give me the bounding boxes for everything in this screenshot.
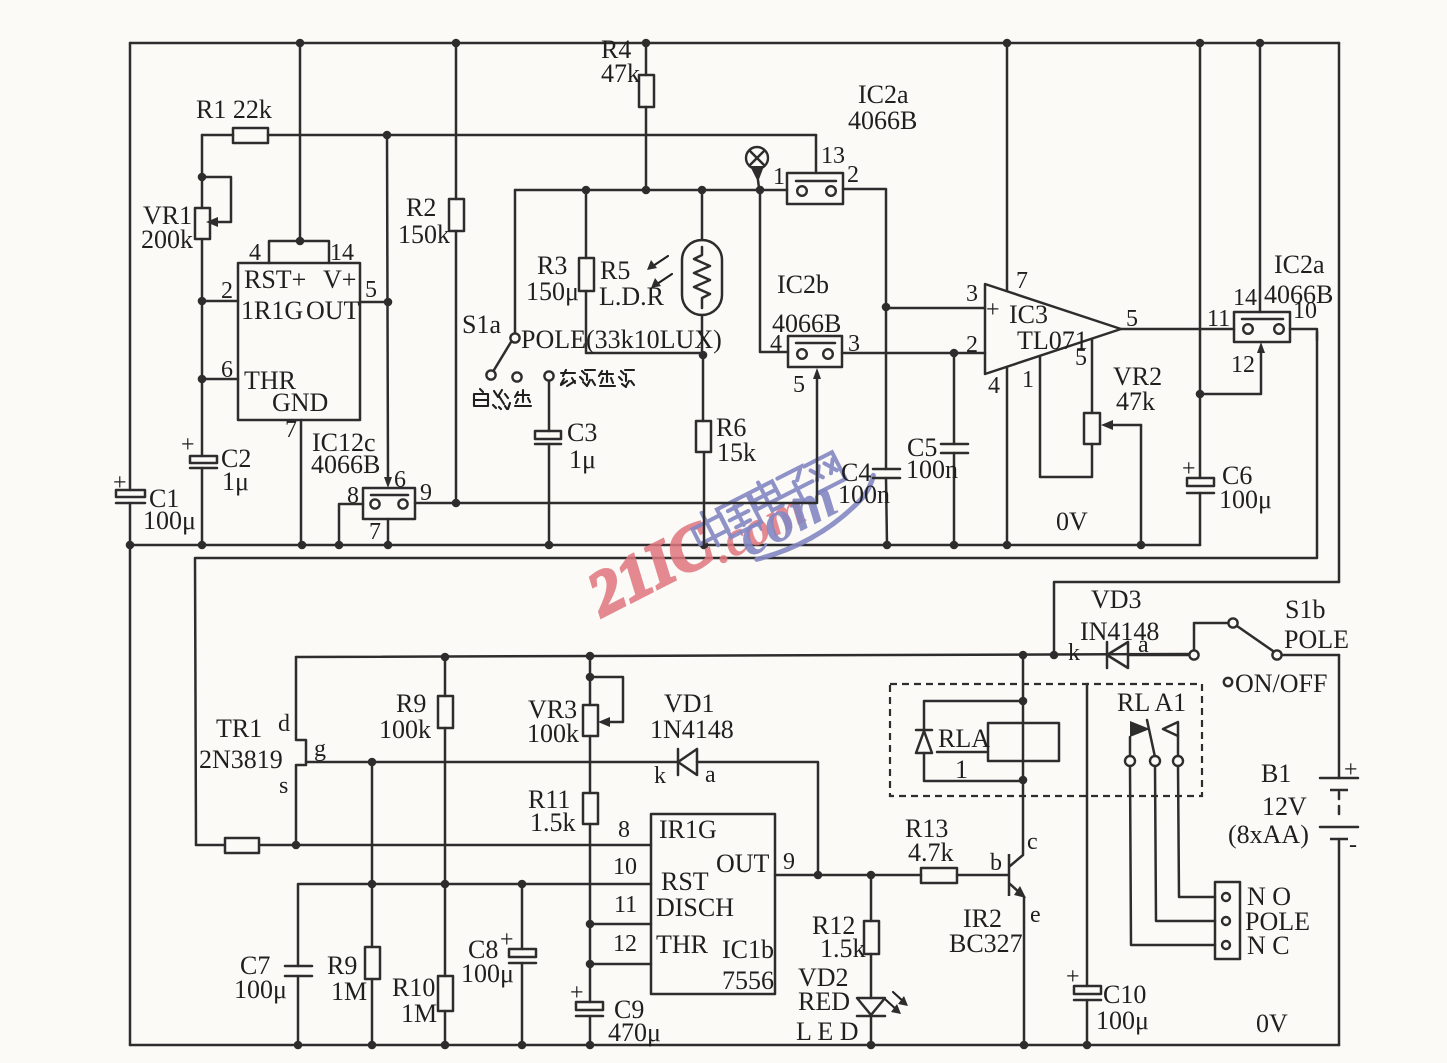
svg-text:V+: V+ xyxy=(323,265,356,294)
wire opamp pin4 ground xyxy=(1006,367,1009,545)
svg-text:GND: GND xyxy=(272,388,328,417)
svg-text:13: 13 xyxy=(821,143,845,169)
svg-text:S1a: S1a xyxy=(462,310,501,339)
svg-text:IC3: IC3 xyxy=(1009,300,1048,329)
diode RLA freewheel xyxy=(916,701,1023,781)
light arrows onto LDR xyxy=(647,256,672,288)
svg-text:c: c xyxy=(1027,829,1038,855)
wire IC2b pin3 to opamp in- xyxy=(842,352,985,355)
capacitor C1 xyxy=(116,490,145,503)
svg-text:R9: R9 xyxy=(396,689,426,718)
wire control line x388 to IC12c xyxy=(384,135,392,488)
potentiometer VR3 xyxy=(583,655,623,736)
svg-text:OUT: OUT xyxy=(716,849,770,878)
wire S1a pole drop xyxy=(514,190,517,333)
node VR3 wiper junction xyxy=(586,673,595,682)
node y190 junction R3 xyxy=(582,186,591,195)
svg-text:RST: RST xyxy=(661,867,709,896)
svg-text:(8xAA): (8xAA) xyxy=(1228,820,1309,849)
svg-text:RED: RED xyxy=(798,987,850,1016)
svg-text:4066B: 4066B xyxy=(772,309,841,338)
wire contact NC leg xyxy=(1130,766,1215,945)
svg-text:R1 22k: R1 22k xyxy=(196,95,272,124)
svg-text:7: 7 xyxy=(369,519,381,545)
svg-text:150k: 150k xyxy=(398,220,450,249)
capacitor C6 xyxy=(1187,43,1214,545)
label jiaoliu guangyuan AC light source xyxy=(561,370,634,387)
node bottom rail junction x445 xyxy=(441,1041,450,1050)
capacitor C5 xyxy=(941,353,968,545)
svg-text:+: + xyxy=(500,927,514,953)
photoresistor R5 LDR xyxy=(682,190,722,353)
potentiometer VR1 xyxy=(195,177,231,239)
resistor unlabeled source xyxy=(225,838,259,853)
wire IC2a pin2 down x886 xyxy=(843,189,886,307)
wire IC1a pin5 OUT xyxy=(360,301,388,304)
svg-text:470μ: 470μ xyxy=(608,1018,661,1047)
svg-text:3: 3 xyxy=(966,281,978,307)
svg-text:R9: R9 xyxy=(327,951,357,980)
node coil upper junction xyxy=(1019,697,1028,706)
node VD3 branch junction xyxy=(1050,651,1059,660)
node VR1 top junction xyxy=(198,173,207,182)
wire IC1a V+ feed x300 xyxy=(299,43,302,241)
node 0V rail junction x887 xyxy=(883,541,892,550)
svg-text:1.5k: 1.5k xyxy=(530,808,576,837)
svg-text:+: + xyxy=(181,432,195,458)
svg-text:BC327: BC327 xyxy=(949,929,1023,958)
node bottom rail junction x372 xyxy=(368,1041,377,1050)
wire VR1 branch vertical x202 xyxy=(201,135,204,545)
capacitor C8 xyxy=(509,884,536,1045)
svg-text:8: 8 xyxy=(618,817,630,843)
capacitor C10 xyxy=(1074,684,1101,1045)
svg-text:1μ: 1μ xyxy=(222,467,249,496)
svg-text:100μ: 100μ xyxy=(461,959,514,988)
resistor R13 xyxy=(921,868,1008,883)
transistor IR2 BC327 xyxy=(1009,854,1026,1045)
svg-text:e: e xyxy=(1030,902,1041,928)
resistor R12 xyxy=(864,875,879,998)
svg-text:RST+: RST+ xyxy=(244,265,306,294)
svg-text:IC2a: IC2a xyxy=(858,80,909,109)
node source junction x296 xyxy=(292,841,301,850)
svg-text:12: 12 xyxy=(1231,352,1255,378)
svg-text:100k: 100k xyxy=(379,715,431,744)
wire left border xyxy=(129,43,132,490)
node pin6 junction xyxy=(198,375,207,384)
resistor R3 xyxy=(579,190,703,353)
wire RST line y884 xyxy=(298,884,651,966)
svg-text:DISCH: DISCH xyxy=(656,893,734,922)
diode VD1 1N4148 xyxy=(678,749,818,875)
node 0V rail junction x954 xyxy=(950,541,959,550)
node 0V rail junction x549 xyxy=(545,541,554,550)
svg-text:1: 1 xyxy=(955,755,968,784)
node 0V rail junction x130 xyxy=(126,541,135,550)
node 0V rail junction x1007 xyxy=(1003,541,1012,550)
node coil lower junction xyxy=(1019,776,1028,785)
wire lamp node line y190 xyxy=(515,189,787,192)
wire IC1a pin6 xyxy=(202,378,238,381)
node bottom rail junction x590 xyxy=(586,1041,595,1050)
svg-text:+: + xyxy=(570,980,584,1006)
wire opamp in+ xyxy=(886,307,985,310)
svg-text:100μ: 100μ xyxy=(1219,485,1272,514)
arrowhead IC2b pin5 xyxy=(813,368,821,379)
node VR3 top junction xyxy=(586,652,595,661)
capacitor C2 xyxy=(190,456,217,468)
svg-text:10: 10 xyxy=(1293,298,1317,324)
wire IC1b OUT pin9 xyxy=(775,874,921,877)
svg-text:2: 2 xyxy=(966,332,978,358)
wire IC1a pins 4-14 bracket xyxy=(269,241,329,263)
op-amp U IC1a timer box xyxy=(238,263,360,420)
svg-text:k: k xyxy=(654,763,666,789)
svg-text:2N3819: 2N3819 xyxy=(199,745,283,774)
wire bottom 0V rail xyxy=(130,1044,1339,1047)
transistor TR1 2N3819 xyxy=(296,657,306,845)
svg-text:14: 14 xyxy=(1233,285,1257,311)
wire IC2a right pin14 supply xyxy=(1259,43,1262,312)
node y190 junction lamp xyxy=(756,186,765,195)
svg-text:1R1G: 1R1G xyxy=(241,296,303,325)
svg-text:100n: 100n xyxy=(906,455,958,484)
svg-text:100k: 100k xyxy=(527,719,579,748)
resistor R11 xyxy=(583,736,598,924)
node bottom rail junction x522 xyxy=(518,1041,527,1050)
svg-text:100n: 100n xyxy=(838,480,890,509)
node pin2 junction xyxy=(198,297,207,306)
wire IC1a pin2 xyxy=(202,300,238,303)
node 0V rail junction x1141 xyxy=(1137,541,1146,550)
wire bottom section top line y656 xyxy=(296,654,1190,657)
wire opamp output to IC2a right xyxy=(1121,328,1234,331)
svg-text:R2: R2 xyxy=(406,193,436,222)
wire lamp node to IC2b pin4 xyxy=(760,190,788,352)
node RST junction x522 xyxy=(518,880,527,889)
wire right border upper xyxy=(1338,43,1341,582)
node top rail junction x300 xyxy=(296,39,305,48)
svg-text:a: a xyxy=(1138,632,1149,658)
svg-text:RL A1: RL A1 xyxy=(1117,688,1186,717)
node y190 junction LDR xyxy=(698,186,707,195)
svg-text:4066B: 4066B xyxy=(848,106,917,135)
node 0V rail junction x704 xyxy=(700,541,709,550)
node top rail junction x1200 xyxy=(1196,39,1205,48)
svg-text:IC1b: IC1b xyxy=(722,935,774,964)
svg-text:9: 9 xyxy=(783,849,795,875)
svg-text:+: + xyxy=(1066,964,1080,990)
watermark zhongguo dianziwang blue xyxy=(687,446,846,552)
capacitor C3 xyxy=(535,381,561,545)
svg-text:IC2b: IC2b xyxy=(777,270,829,299)
node 0V rail junction x202 xyxy=(198,541,207,550)
svg-text:TR1: TR1 xyxy=(216,714,262,743)
node LDR bottom junction xyxy=(699,351,708,360)
label RLA underline xyxy=(937,751,986,754)
node pin11 junction xyxy=(586,920,595,929)
svg-text:1: 1 xyxy=(1022,367,1034,393)
node OUT junction R12 xyxy=(867,871,876,880)
terminal block NO POLE NC xyxy=(1215,882,1240,959)
watermark com blue script xyxy=(725,443,887,569)
wire relay coil feed xyxy=(1022,655,1025,854)
resistor R4 xyxy=(639,43,654,190)
capacitor C9 xyxy=(576,924,603,1045)
wire IC1a pin7 GND xyxy=(300,420,303,545)
node RST junction x445 xyxy=(441,880,450,889)
node bottom rail junction x1087 xyxy=(1083,1041,1092,1050)
svg-text:1.5k: 1.5k xyxy=(820,934,866,963)
node top rail junction x1007 xyxy=(1003,39,1012,48)
svg-text:a: a xyxy=(705,762,716,788)
svg-text:12V: 12V xyxy=(1262,792,1307,821)
wire switched supply rail of bottom section xyxy=(195,332,1317,845)
diode VD3 IN4148 xyxy=(1107,642,1189,668)
node pin5 junction xyxy=(384,298,393,307)
svg-text:d: d xyxy=(278,711,290,737)
svg-text:R3: R3 xyxy=(537,251,567,280)
resistor R6 xyxy=(696,355,711,545)
svg-text:b: b xyxy=(990,850,1002,876)
svg-text:5: 5 xyxy=(793,372,805,398)
wire IC12c pin9 to IC2b pin5 xyxy=(415,374,817,503)
resistor R9 1M xyxy=(365,762,380,1045)
svg-text:4: 4 xyxy=(770,331,782,357)
svg-text:g: g xyxy=(314,736,326,762)
svg-text:+: + xyxy=(113,470,127,496)
wire IC12c pin7 to rail xyxy=(387,519,390,545)
svg-text:k: k xyxy=(1068,640,1080,666)
wire top +V rail xyxy=(130,42,1339,45)
svg-text:R5: R5 xyxy=(600,256,630,285)
wire 0V rail top section xyxy=(130,544,1200,547)
svg-text:R10: R10 xyxy=(392,973,435,1002)
svg-text:POLE: POLE xyxy=(1284,625,1349,654)
node C6 junction xyxy=(1196,390,1205,399)
analog switch IC2b xyxy=(788,336,842,367)
node coil top junction xyxy=(1019,651,1028,660)
node RST junction x372 xyxy=(368,880,377,889)
svg-text:OUT: OUT xyxy=(306,296,360,325)
svg-text:11: 11 xyxy=(614,892,637,918)
wire opamp pin7 supply xyxy=(1006,43,1009,291)
svg-text:RLA: RLA xyxy=(938,724,990,753)
node 0V rail junction x302 xyxy=(298,541,307,550)
svg-text:200k: 200k xyxy=(141,225,193,254)
svg-text:10: 10 xyxy=(613,854,637,880)
resistor R2 xyxy=(449,43,464,503)
node bottom rail junction x298 xyxy=(294,1041,303,1050)
svg-text:5: 5 xyxy=(365,277,377,303)
svg-text:+: + xyxy=(1182,456,1196,482)
svg-text:POLE(33k10LUX): POLE(33k10LUX) xyxy=(521,325,722,354)
svg-text:4066B: 4066B xyxy=(311,450,380,479)
wire contact NO leg xyxy=(1178,766,1215,897)
analog switch IC2a right xyxy=(1234,312,1290,342)
svg-text:1M: 1M xyxy=(401,999,437,1028)
capacitor C4 xyxy=(873,307,900,545)
switch S1a xyxy=(486,333,553,381)
svg-text:100μ: 100μ xyxy=(234,975,287,1004)
node 0V rail junction x339 xyxy=(335,541,344,550)
wire contact POLE leg xyxy=(1155,766,1215,921)
resistor R10 xyxy=(438,885,453,1045)
svg-text:+: + xyxy=(986,297,1000,323)
wire IC12c pin8 to rail xyxy=(339,504,363,545)
node x886 junction opamp in+ xyxy=(882,303,891,312)
analog switch IC2a t3 xyxy=(787,135,843,204)
svg-text:4: 4 xyxy=(988,373,1000,399)
node OUT junction VD1 xyxy=(814,871,823,880)
svg-text:S1b: S1b xyxy=(1285,595,1325,624)
analog switch IC12c xyxy=(363,488,415,519)
node top rail junction x646 xyxy=(642,39,651,48)
node IC1a supply junction xyxy=(296,237,305,246)
lamp indicator xyxy=(746,147,768,188)
svg-text:47k: 47k xyxy=(601,59,640,88)
svg-text:15k: 15k xyxy=(717,438,756,467)
node C5 junction xyxy=(950,349,959,358)
svg-text:B1: B1 xyxy=(1261,759,1291,788)
svg-text:12: 12 xyxy=(613,931,637,957)
potentiometer VR2 xyxy=(1084,413,1141,545)
wire source follower line y845 xyxy=(196,844,651,847)
svg-text:11: 11 xyxy=(1207,306,1230,332)
node pin12 junction xyxy=(586,960,595,969)
battery B1 xyxy=(1320,655,1358,1045)
relay coil RLA/1 xyxy=(988,723,1059,761)
svg-text:100μ: 100μ xyxy=(143,506,196,535)
svg-text:C10: C10 xyxy=(1103,980,1146,1009)
wire IC2a right pin10 xyxy=(1290,329,1317,340)
svg-text:1M: 1M xyxy=(331,977,367,1006)
svg-text:7556: 7556 xyxy=(722,966,774,995)
wire opamp pin5 stub to VR2 top xyxy=(1091,339,1094,413)
svg-text:L E D: L E D xyxy=(796,1017,859,1046)
node R9 top junction xyxy=(441,653,450,662)
svg-text:4.7k: 4.7k xyxy=(908,838,954,867)
capacitor C7 xyxy=(285,966,312,1045)
svg-text:THR: THR xyxy=(656,930,709,959)
svg-text:1N4148: 1N4148 xyxy=(650,715,734,744)
op-amp IC3 TL071 xyxy=(985,284,1121,374)
svg-text:N C: N C xyxy=(1247,931,1290,960)
wire opamp pin1 to VR2 bottom xyxy=(1040,356,1092,477)
wire IC1b pin11 xyxy=(590,923,651,926)
node gate junction x372 xyxy=(368,758,377,767)
node 0V rail junction x388 xyxy=(384,541,393,550)
svg-text:7: 7 xyxy=(285,417,297,443)
svg-text:1μ: 1μ xyxy=(569,445,596,474)
svg-text:IR1G: IR1G xyxy=(659,815,717,844)
svg-text:1: 1 xyxy=(773,164,785,190)
relay dashed enclosure xyxy=(890,684,1202,796)
svg-text:ON/OFF: ON/OFF xyxy=(1235,669,1327,698)
svg-text:-: - xyxy=(1349,832,1357,858)
wire IC2a right pin12 control xyxy=(1200,342,1265,394)
switch S1b xyxy=(1189,618,1339,686)
node top rail junction x1260 xyxy=(1256,39,1265,48)
svg-text:0V: 0V xyxy=(1056,507,1088,536)
node y190 junction R4 xyxy=(642,186,651,195)
node top rail junction x456 xyxy=(452,39,461,48)
svg-text:7: 7 xyxy=(1016,268,1028,294)
svg-text:C3: C3 xyxy=(567,418,597,447)
svg-text:0V: 0V xyxy=(1256,1009,1288,1038)
IC U IC1b 7556 box xyxy=(651,814,775,994)
wire TR1 gate line y762 xyxy=(306,761,678,764)
node R1 output junction x387 xyxy=(383,131,392,140)
svg-text:IC2a: IC2a xyxy=(1274,250,1325,279)
node bottom rail junction x1024 xyxy=(1020,1041,1029,1050)
svg-text:s: s xyxy=(279,773,288,799)
label ziranguang natural light xyxy=(474,389,531,409)
svg-text:2: 2 xyxy=(847,162,859,188)
svg-text:5: 5 xyxy=(1075,345,1087,371)
wire IC1b pin12 xyxy=(590,963,651,966)
svg-text:6: 6 xyxy=(394,467,406,493)
resistor R1 xyxy=(202,128,816,143)
svg-text:VD1: VD1 xyxy=(664,689,715,718)
resistor R9 100k xyxy=(438,656,453,885)
svg-text:VD3: VD3 xyxy=(1091,585,1142,614)
svg-text:100μ: 100μ xyxy=(1096,1006,1149,1035)
relay contact RL A1 xyxy=(1125,720,1183,766)
svg-text:+: + xyxy=(1344,757,1358,783)
node pin9 junction R2 xyxy=(452,499,461,508)
LED VD2 xyxy=(857,992,908,1045)
wire right border link y582 xyxy=(1054,582,1339,655)
svg-text:47k: 47k xyxy=(1116,387,1155,416)
node bottom rail junction x871 xyxy=(867,1041,876,1050)
svg-text:150μ: 150μ xyxy=(526,277,579,306)
